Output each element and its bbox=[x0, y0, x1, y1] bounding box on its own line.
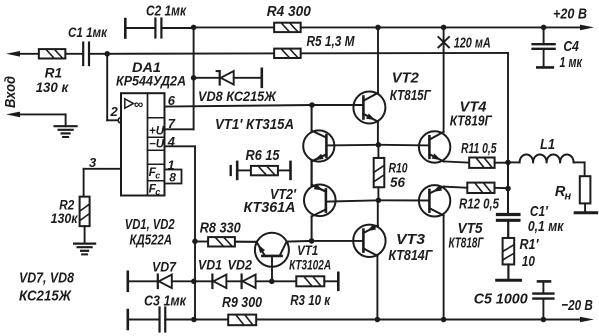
svg-text:C2 1мк: C2 1мк bbox=[146, 4, 187, 20]
svg-text:C3 1мк: C3 1мк bbox=[144, 294, 187, 310]
svg-text:КТ815Г: КТ815Г bbox=[390, 88, 432, 104]
svg-text:−20 В: −20 В bbox=[561, 297, 593, 314]
svg-text:КС215Ж: КС215Ж bbox=[19, 289, 72, 305]
svg-text:R1: R1 bbox=[45, 65, 63, 81]
svg-text:КТ818Г: КТ818Г bbox=[449, 236, 485, 252]
svg-text:КР544УД2А: КР544УД2А bbox=[116, 74, 186, 90]
svg-text:VD2: VD2 bbox=[228, 258, 253, 274]
svg-text:c: c bbox=[155, 187, 160, 197]
svg-text:Вход: Вход bbox=[3, 76, 19, 108]
svg-text:C1 1мк: C1 1мк bbox=[68, 25, 108, 41]
svg-text:КД522А: КД522А bbox=[130, 233, 173, 249]
svg-text:C1′: C1′ bbox=[530, 204, 549, 220]
svg-text:R10: R10 bbox=[389, 160, 408, 176]
svg-text:КТ814Г: КТ814Г bbox=[388, 248, 433, 264]
svg-text:VT1′ КТ315А: VT1′ КТ315А bbox=[215, 117, 294, 133]
svg-text:VT2: VT2 bbox=[392, 71, 420, 87]
svg-text:R12 0,5: R12 0,5 bbox=[459, 196, 500, 212]
svg-text:∞: ∞ bbox=[134, 96, 143, 111]
svg-text:R8 330: R8 330 bbox=[200, 221, 242, 237]
svg-text:C5 1000: C5 1000 bbox=[474, 291, 529, 307]
svg-text:н: н bbox=[565, 191, 572, 203]
svg-text:R4 300: R4 300 bbox=[267, 4, 312, 20]
svg-text:L1: L1 bbox=[540, 137, 555, 153]
svg-text:130 к: 130 к bbox=[36, 80, 69, 96]
svg-text:VT5: VT5 bbox=[458, 221, 484, 237]
svg-text:КТ361А: КТ361А bbox=[244, 200, 296, 216]
svg-text:130к: 130к bbox=[51, 211, 79, 227]
svg-text:2: 2 bbox=[110, 104, 119, 119]
svg-text:8: 8 bbox=[169, 170, 176, 184]
svg-text:КТ3102А: КТ3102А bbox=[289, 257, 331, 273]
svg-text:10: 10 bbox=[522, 254, 536, 270]
svg-text:R6 15: R6 15 bbox=[246, 148, 281, 164]
svg-text:VT3: VT3 bbox=[396, 232, 426, 248]
svg-text:c: c bbox=[155, 171, 160, 181]
svg-text:VD7: VD7 bbox=[152, 259, 177, 275]
svg-text:КТ819Г: КТ819Г bbox=[450, 113, 493, 129]
svg-text:VD1: VD1 bbox=[198, 258, 222, 274]
svg-text:+U: +U bbox=[149, 125, 165, 137]
svg-text:R11 0,5: R11 0,5 bbox=[461, 141, 497, 157]
svg-text:1 мк: 1 мк bbox=[560, 55, 584, 71]
svg-text:−U: −U bbox=[149, 139, 165, 151]
svg-text:VD1, VD2: VD1, VD2 bbox=[125, 217, 176, 233]
svg-text:0,1 мк: 0,1 мк bbox=[528, 219, 565, 235]
svg-text:1: 1 bbox=[167, 157, 174, 172]
svg-text:R3 10 к: R3 10 к bbox=[290, 293, 331, 309]
svg-text:VD7, VD8: VD7, VD8 bbox=[19, 271, 75, 287]
svg-text:C4: C4 bbox=[563, 39, 579, 55]
svg-text:120 мА: 120 мА bbox=[454, 35, 491, 51]
svg-text:R5 1,3 М: R5 1,3 М bbox=[307, 34, 356, 50]
svg-text:56: 56 bbox=[390, 175, 405, 191]
svg-text:3: 3 bbox=[89, 155, 97, 170]
svg-text:R1′: R1′ bbox=[520, 237, 540, 253]
svg-text:R9 300: R9 300 bbox=[222, 295, 263, 311]
svg-text:+20 В: +20 В bbox=[553, 6, 587, 23]
svg-text:VD8 КС215Ж: VD8 КС215Ж bbox=[198, 89, 277, 105]
